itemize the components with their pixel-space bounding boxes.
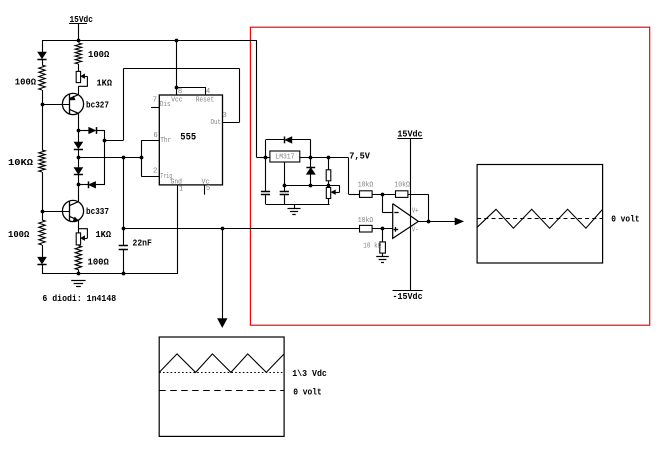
- svg-text:100Ω: 100Ω: [88, 49, 110, 60]
- svg-text:10kΩ: 10kΩ: [358, 182, 374, 190]
- svg-text:7,5V: 7,5V: [349, 151, 370, 162]
- svg-text:V-: V-: [412, 227, 419, 235]
- svg-text:3: 3: [222, 112, 226, 120]
- svg-text:0 volt: 0 volt: [611, 213, 639, 224]
- svg-text:Gnd: Gnd: [171, 178, 183, 186]
- svg-text:6 diodi: 1n4148: 6 diodi: 1n4148: [42, 293, 116, 304]
- svg-text:Vc: Vc: [202, 178, 210, 186]
- svg-text:1\3 Vdc: 1\3 Vdc: [292, 368, 327, 379]
- svg-text:4: 4: [206, 88, 211, 96]
- svg-text:10kΩ: 10kΩ: [394, 182, 410, 190]
- svg-text:10 kΩ: 10 kΩ: [363, 243, 382, 251]
- svg-text:7: 7: [153, 97, 157, 105]
- svg-text:8: 8: [178, 88, 182, 96]
- svg-text:Thr: Thr: [160, 137, 171, 145]
- svg-text:-15Vdc: -15Vdc: [393, 291, 423, 302]
- svg-text:100Ω: 100Ω: [8, 229, 30, 240]
- svg-text:6: 6: [153, 132, 157, 140]
- svg-text:100Ω: 100Ω: [88, 257, 110, 268]
- svg-text:0 volt: 0 volt: [293, 387, 322, 398]
- svg-text:100Ω: 100Ω: [15, 77, 37, 88]
- svg-text:LM317: LM317: [275, 153, 294, 161]
- svg-text:555: 555: [180, 132, 196, 143]
- svg-text:bc327: bc327: [86, 99, 109, 110]
- svg-text:1: 1: [179, 185, 184, 193]
- svg-text:10kΩ: 10kΩ: [358, 217, 374, 225]
- svg-text:22nF: 22nF: [133, 237, 153, 248]
- svg-text:10KΩ: 10KΩ: [8, 157, 33, 168]
- svg-text:2: 2: [153, 168, 157, 176]
- svg-text:1KΩ: 1KΩ: [97, 78, 113, 89]
- svg-text:Dis: Dis: [160, 101, 171, 109]
- svg-text:V+: V+: [412, 207, 419, 215]
- svg-text:Vcc: Vcc: [171, 96, 182, 104]
- svg-text:Out: Out: [211, 119, 222, 127]
- svg-text:1KΩ: 1KΩ: [96, 229, 112, 240]
- svg-text:Reset: Reset: [196, 96, 215, 104]
- svg-text:bc337: bc337: [86, 206, 109, 217]
